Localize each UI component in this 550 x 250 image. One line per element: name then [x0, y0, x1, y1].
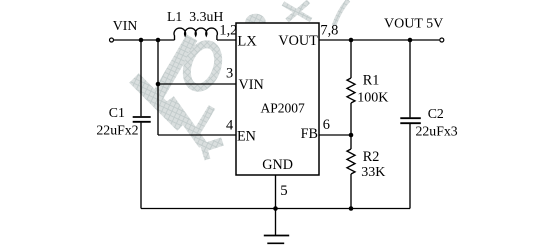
svg-text:1,2: 1,2: [219, 23, 237, 39]
node junction R1 on VOUT rail: [349, 38, 354, 43]
wire to pin 4 EN: [158, 134, 236, 136]
ground: [264, 236, 289, 244]
svg-text:L1 3.3uH: L1 3.3uH: [167, 9, 223, 24]
svg-text:33K: 33K: [361, 165, 385, 180]
wire to pin 3: [158, 83, 236, 85]
svg-text:R2: R2: [363, 149, 380, 165]
wire inductor to LX pin: [217, 39, 236, 41]
node junction R2 on bottom rail: [349, 206, 354, 211]
wire top rail from VIN terminal to inductor: [114, 39, 175, 41]
svg-text:R1: R1: [363, 72, 380, 88]
node junction FB divider: [349, 133, 354, 138]
wire R1 lower lead: [350, 103, 352, 135]
wire R2 lower lead: [350, 174, 352, 209]
wire bottom rail: [141, 208, 410, 210]
svg-text:C1: C1: [109, 105, 125, 120]
wire C2 upper lead: [409, 40, 411, 117]
wire C2 lower lead: [409, 124, 411, 209]
node junction VIN/EN branch on top rail: [156, 38, 161, 43]
svg-text:VIN: VIN: [239, 77, 264, 93]
svg-text:EN: EN: [237, 128, 256, 144]
svg-text:VOUT 5V: VOUT 5V: [384, 17, 443, 32]
wire GND pin 5: [275, 175, 277, 236]
resistor R1: [347, 78, 355, 103]
svg-text:3: 3: [226, 66, 233, 82]
svg-text:5: 5: [280, 183, 287, 199]
svg-text:VOUT: VOUT: [278, 33, 318, 49]
svg-text:7,8: 7,8: [320, 23, 338, 39]
wire FB to divider: [319, 134, 351, 136]
node junction C2 on VOUT rail: [408, 38, 413, 43]
wire C1 branch upper: [140, 40, 142, 116]
svg-text:LX: LX: [237, 33, 257, 49]
svg-text:100K: 100K: [357, 90, 388, 105]
terminal VOUT output: [440, 38, 444, 42]
IC U1 AP2007: [236, 23, 319, 175]
capacitor C2: [400, 118, 421, 123]
node junction C1 branch on top rail: [139, 38, 144, 43]
resistor R2: [347, 149, 355, 174]
wire VIN branch vertical: [157, 40, 159, 135]
capacitor C1: [133, 117, 151, 122]
svg-text:6: 6: [323, 117, 330, 133]
svg-text:AP2007: AP2007: [261, 101, 306, 116]
wire R1 upper lead: [350, 40, 352, 78]
node junction GND on bottom rail: [273, 206, 278, 211]
wire R2 upper lead: [350, 135, 352, 149]
svg-text:FB: FB: [301, 126, 318, 142]
svg-text:22uFx3: 22uFx3: [416, 124, 458, 139]
svg-text:4: 4: [226, 117, 233, 133]
terminal VIN input: [110, 38, 114, 42]
node junction pin3 tap: [156, 82, 161, 87]
svg-text:VIN: VIN: [113, 18, 138, 33]
svg-text:C2: C2: [428, 106, 444, 121]
svg-text:GND: GND: [262, 157, 293, 173]
wire VOUT rail: [319, 39, 439, 41]
watermark: [134, 0, 349, 160]
svg-text:22uFx2: 22uFx2: [96, 122, 138, 137]
inductor L1: [174, 28, 217, 40]
wire C1 branch lower: [140, 123, 142, 209]
